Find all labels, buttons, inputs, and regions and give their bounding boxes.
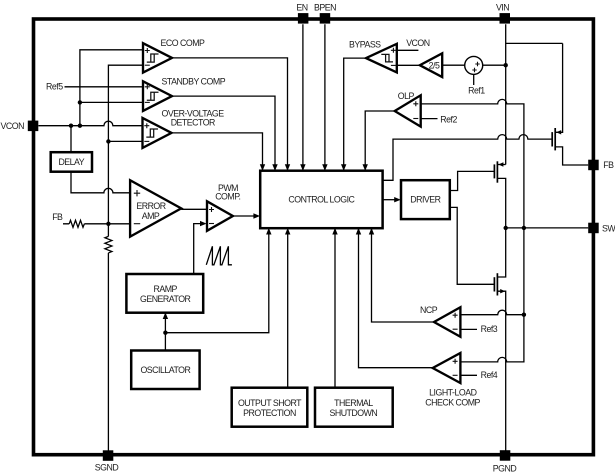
wire: DRIVER output 2 to Q3 gate bbox=[450, 207, 495, 284]
wire: arrowhead into PWM - input bbox=[200, 221, 207, 226]
wire: VCON up to ECO COMP + input bbox=[80, 50, 143, 126]
svg-text:OUTPUT SHORT: OUTPUT SHORT bbox=[238, 398, 302, 408]
wire: PWM COMP output to CONTROL LOGIC bbox=[233, 215, 254, 217]
pin PGND bbox=[500, 450, 511, 461]
svg-text:PGND: PGND bbox=[493, 464, 517, 473]
wire: light-load comp output to CONTROL LOGIC bottom bbox=[359, 230, 433, 368]
svg-text:CONTROL LOGIC: CONTROL LOGIC bbox=[288, 194, 355, 204]
CONTROL LOGIC block bbox=[260, 171, 382, 229]
THERMAL SHUTDOWN block bbox=[315, 388, 393, 427]
comparator STANDBY COMP bbox=[143, 81, 172, 111]
svg-text:VCON: VCON bbox=[1, 121, 25, 131]
node: VCON junction at ECO branch bbox=[78, 124, 82, 128]
wire: arrowhead OSP into CONTROL LOGIC bbox=[285, 228, 290, 235]
svg-text:BPEN: BPEN bbox=[314, 3, 336, 13]
svg-text:VCON: VCON bbox=[406, 38, 430, 48]
OUTPUT SHORT PROTECTION block bbox=[232, 388, 308, 427]
wire: over-voltage detector output to CONTROL LOGIC top bbox=[172, 133, 263, 169]
wire: VCON stub at BYPASS + input bbox=[397, 49, 419, 51]
wire: ECO COMP output to CONTROL LOGIC top bbox=[172, 58, 288, 169]
wire: arrowhead BYPASS into CONTROL LOGIC bbox=[341, 164, 346, 171]
svg-text:ECO COMP: ECO COMP bbox=[161, 38, 206, 48]
resistor R1 (FB series) bbox=[69, 220, 84, 227]
svg-text:SW: SW bbox=[602, 223, 615, 233]
wire: 2/5 output to BYPASS - input bbox=[397, 64, 420, 66]
voltage source Ref1 bbox=[465, 56, 483, 74]
RAMP GENERATOR block bbox=[126, 274, 203, 313]
OSCILLATOR block bbox=[131, 351, 199, 390]
wire: arrowhead STANDBY into CONTROL LOGIC bbox=[272, 164, 277, 171]
wire: arrowhead OLP into CONTROL LOGIC bbox=[363, 164, 368, 171]
node: SW junction at sense vertical bbox=[522, 226, 526, 230]
wire: light-load comp - input Ref4 stub bbox=[460, 374, 477, 376]
pin SGND bbox=[103, 450, 114, 461]
wire: OLP output to CONTROL LOGIC top bbox=[365, 111, 395, 169]
wire: divider down to SGND pin bbox=[107, 253, 109, 452]
wire: arrowhead into RAMP GENERATOR bottom bbox=[163, 312, 168, 319]
svg-text:Ref3: Ref3 bbox=[481, 324, 498, 334]
comparator PWM COMP bbox=[207, 201, 233, 231]
svg-text:BYPASS: BYPASS bbox=[349, 40, 381, 50]
node: FB junction at ERROR AMP - input bbox=[106, 222, 110, 226]
svg-text:Ref1: Ref1 bbox=[468, 86, 485, 96]
svg-text:THERMAL: THERMAL bbox=[334, 398, 373, 408]
svg-text:DRIVER: DRIVER bbox=[410, 195, 440, 205]
wire: arrowhead osc branch into CONTROL LOGIC bbox=[266, 228, 271, 235]
wire: arrowhead light-load into CONTROL LOGIC bbox=[356, 228, 361, 235]
wire: DELAY output to ERROR AMP + input (hop over FB vertical) bbox=[71, 172, 130, 193]
wire: ERROR AMP output to PWM COMP + input bbox=[181, 208, 207, 210]
wire: VCON branch to STANDBY COMP - input bbox=[80, 101, 143, 103]
wire: NCP output to CONTROL LOGIC bottom bbox=[372, 230, 435, 323]
wire: arrowhead EN into CONTROL LOGIC bbox=[300, 164, 305, 171]
op-amp ERROR AMP bbox=[130, 180, 181, 236]
comparator over-voltage detector bbox=[143, 118, 172, 148]
svg-text:DELAY: DELAY bbox=[58, 157, 84, 167]
wire: VIN branch to Q1 drain bbox=[506, 42, 563, 44]
DRIVER block bbox=[401, 180, 450, 219]
svg-text:Ref2: Ref2 bbox=[440, 114, 457, 124]
comparator LIGHT-LOAD CHECK COMP bbox=[433, 353, 461, 383]
wire: VCON trace to over-voltage detector + input (hop over FB vertical) bbox=[38, 121, 142, 126]
transistor Q1 (high-side FB pass FET) bbox=[552, 43, 588, 165]
wire: OLP + input SW sense line (hop over VIN rail) down to light-load comp bbox=[421, 99, 524, 362]
wire: arrowhead OVD into CONTROL LOGIC bbox=[260, 164, 265, 171]
wire: BYPASS output to CONTROL LOGIC top bbox=[344, 58, 366, 169]
resistor R2 (divider to SGND) bbox=[105, 236, 112, 253]
wire: arrowhead BPEN into CONTROL LOGIC bbox=[322, 164, 327, 171]
svg-text:AMP: AMP bbox=[142, 211, 160, 221]
svg-text:SGND: SGND bbox=[95, 463, 119, 473]
wire: arrowhead into DRIVER bbox=[394, 197, 401, 202]
comparator NCP bbox=[434, 307, 460, 337]
svg-text:VIN: VIN bbox=[496, 3, 509, 13]
svg-text:COMP.: COMP. bbox=[215, 191, 240, 201]
node: junction FB sense to OVD bbox=[106, 139, 110, 143]
node: SW junction at Q2/Q3 bbox=[504, 226, 508, 230]
wire: CONTROL LOGIC to DRIVER bbox=[383, 199, 395, 201]
wire: Ref1 to 2/5 input bbox=[442, 64, 465, 66]
transistor Q3 (low-side power FET) bbox=[494, 228, 505, 452]
node: junction NCP on SW sense vertical bbox=[522, 313, 526, 317]
svg-text:FB: FB bbox=[603, 160, 614, 170]
wire: OLP - input Ref2 stub bbox=[421, 118, 438, 120]
svg-text:OSCILLATOR: OSCILLATOR bbox=[140, 365, 190, 375]
wire: Ref1 to VIN rail bbox=[483, 64, 506, 66]
svg-text:ERROR: ERROR bbox=[136, 201, 165, 211]
svg-text:Ref4: Ref4 bbox=[481, 370, 498, 380]
node: junction Ref1 on VIN rail bbox=[504, 63, 508, 67]
wire: VCON down into DELAY bbox=[70, 126, 72, 153]
svg-text:GENERATOR: GENERATOR bbox=[140, 294, 191, 304]
comparator OLP bbox=[395, 95, 421, 126]
wire: FB sense branch to over-voltage detector - input bbox=[108, 140, 142, 142]
comparator BYPASS bbox=[366, 44, 397, 73]
wire: BPEN pin to CONTROL LOGIC bbox=[324, 24, 326, 169]
wire: FB input line bbox=[63, 223, 130, 225]
svg-text:EN: EN bbox=[296, 3, 307, 13]
wire: DRIVER output 1 to Q2 gate bbox=[450, 171, 495, 190]
svg-text:STANDBY COMP: STANDBY COMP bbox=[162, 76, 226, 86]
wire: EN pin to CONTROL LOGIC bbox=[302, 24, 304, 169]
svg-text:SHUTDOWN: SHUTDOWN bbox=[329, 408, 377, 418]
wire: arrowhead into CONTROL LOGIC left bbox=[253, 213, 260, 218]
wire: arrowhead ECO into CONTROL LOGIC bbox=[285, 164, 290, 171]
svg-text:OLP: OLP bbox=[398, 91, 415, 101]
wire: THERMAL SHUTDOWN to CONTROL LOGIC bbox=[334, 230, 336, 388]
pin BPEN bbox=[320, 13, 331, 24]
node: VCON junction at DELAY branch bbox=[69, 124, 73, 128]
svg-text:Ref5: Ref5 bbox=[46, 82, 63, 92]
comparator ECO COMP bbox=[143, 43, 172, 72]
wire: OUTPUT SHORT PROTECTION to CONTROL LOGIC bbox=[287, 230, 289, 388]
wire: arrowhead thermal into CONTROL LOGIC bbox=[332, 228, 337, 235]
svg-text:2/5: 2/5 bbox=[429, 61, 440, 71]
wire: FB sense vertical up to ECO COMP - input bbox=[108, 65, 143, 224]
pin SW bbox=[588, 223, 599, 234]
svg-text:CHECK COMP: CHECK COMP bbox=[425, 398, 480, 408]
wire: Ref1 label stub bbox=[473, 74, 475, 85]
wire: STANDBY COMP output to CONTROL LOGIC top bbox=[172, 96, 275, 169]
wire: OSCILLATOR to RAMP GENERATOR bbox=[164, 314, 166, 351]
wire: oscillator branch to CONTROL LOGIC bottom bbox=[165, 230, 268, 333]
svg-text:NCP: NCP bbox=[420, 305, 438, 315]
waveform: sawtooth ramp symbol bbox=[206, 246, 232, 264]
pin VCON bbox=[28, 121, 39, 132]
svg-text:PROTECTION: PROTECTION bbox=[243, 408, 296, 418]
wire: CONTROL LOGIC to Q1 gate line (hops over VIN rail and SW sense) bbox=[383, 135, 553, 181]
pin FB bbox=[588, 160, 599, 171]
svg-text:LIGHT-LOAD: LIGHT-LOAD bbox=[429, 388, 476, 398]
svg-text:RAMP: RAMP bbox=[153, 284, 177, 294]
node: junction on vertical A for STANDBY - bbox=[78, 100, 82, 104]
DELAY block bbox=[51, 152, 92, 172]
pin EN bbox=[298, 13, 309, 24]
svg-text:DETECTOR: DETECTOR bbox=[171, 118, 215, 128]
pin VIN bbox=[500, 13, 511, 24]
wire: NCP - input Ref3 stub bbox=[460, 328, 477, 330]
wire: VIN rail vertical to Q2 drain bbox=[505, 24, 507, 164]
node: oscillator branch junction bbox=[163, 331, 167, 335]
wire: divider to resistor R2 bbox=[107, 224, 109, 237]
wire: Ref5 line to STANDBY COMP + input bbox=[65, 86, 144, 88]
wire: NCP + input to SW sense (hop over PGND rail) bbox=[460, 310, 524, 315]
transistor Q2 (high-side power FET) bbox=[494, 161, 505, 228]
svg-text:FB: FB bbox=[52, 212, 63, 222]
wire: RAMP GENERATOR output up to PWM COMP - input bbox=[194, 224, 200, 274]
wire: arrowhead NCP into CONTROL LOGIC bbox=[369, 228, 374, 235]
amplifier 2/5 bbox=[420, 53, 442, 77]
wire: SW line from Q2 source to SW pin bbox=[506, 227, 589, 229]
